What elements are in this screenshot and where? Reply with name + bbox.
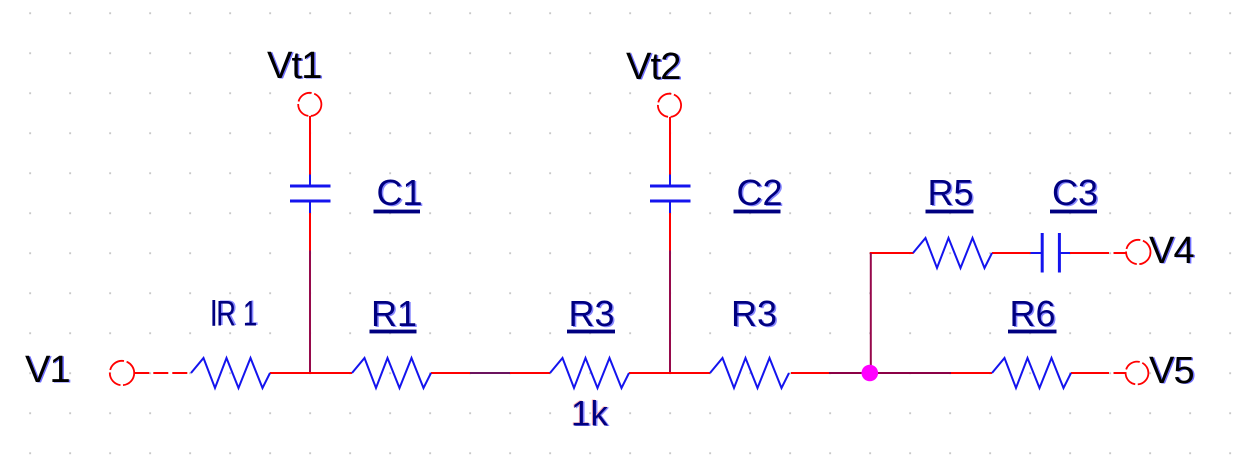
svg-text:1k: 1k xyxy=(571,395,608,434)
svg-text:R5: R5 xyxy=(928,172,974,213)
svg-text:V1: V1 xyxy=(25,349,70,391)
svg-text:R: R xyxy=(216,294,236,333)
svg-text:R3: R3 xyxy=(569,293,615,334)
svg-text:C2: C2 xyxy=(737,172,783,213)
svg-text:V5: V5 xyxy=(1149,350,1194,392)
svg-text:R6: R6 xyxy=(1010,293,1056,334)
svg-text:C1: C1 xyxy=(377,172,423,213)
svg-text:Vt2: Vt2 xyxy=(626,46,681,88)
svg-text:V4: V4 xyxy=(1149,230,1195,272)
svg-text:C3: C3 xyxy=(1052,172,1098,213)
svg-text:1: 1 xyxy=(243,294,257,333)
svg-text:Vt1: Vt1 xyxy=(267,45,322,87)
svg-text:R1: R1 xyxy=(371,293,417,334)
svg-text:R3: R3 xyxy=(731,293,777,334)
